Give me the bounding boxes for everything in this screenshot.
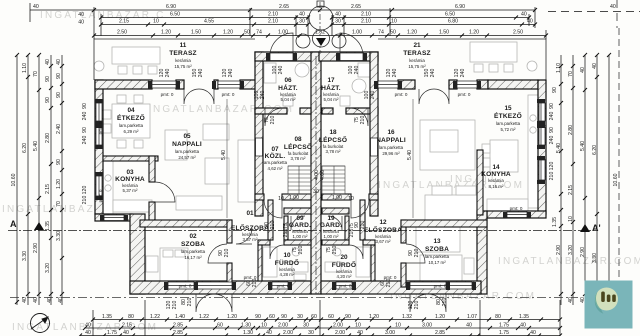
room 08 LEPCSO <box>284 136 312 161</box>
konyha 14 counter <box>528 95 538 208</box>
wall stairs bottom (unit 1) a <box>255 194 264 200</box>
section marker A' right <box>580 224 590 232</box>
wall konyha/nappali (unit 1) <box>103 156 158 161</box>
svg-text:210: 210 <box>549 172 555 181</box>
svg-text:30: 30 <box>297 314 303 320</box>
window bottom furdo 20 <box>336 282 352 289</box>
svg-text:50: 50 <box>390 30 396 36</box>
stair treads 18 <box>322 166 345 190</box>
svg-text:20: 20 <box>340 254 348 261</box>
svg-text:NAPPALI: NAPPALI <box>172 141 202 148</box>
svg-text:1.22: 1.22 <box>199 314 209 320</box>
svg-text:GARD.: GARD. <box>320 222 342 229</box>
window right wall a <box>539 103 545 121</box>
stair treads 08 <box>288 166 311 190</box>
svg-text:08: 08 <box>294 136 302 143</box>
svg-text:40: 40 <box>85 323 91 329</box>
wall eloszoba vertical (unit 1) lower <box>227 263 232 287</box>
svg-text:10.60: 10.60 <box>613 173 619 186</box>
svg-text:4,62 m²: 4,62 m² <box>268 166 283 171</box>
wall stairs bottom (unit 1) b <box>282 194 311 200</box>
wall top outer (unit 2) segment a <box>398 80 415 89</box>
svg-text:1.10: 1.10 <box>556 63 562 73</box>
svg-text:2.15: 2.15 <box>122 323 132 329</box>
svg-text:90: 90 <box>45 97 51 103</box>
svg-text:10: 10 <box>348 196 354 202</box>
svg-text:90: 90 <box>281 314 287 320</box>
svg-text:2.80: 2.80 <box>568 125 574 135</box>
svg-text:40: 40 <box>266 330 272 336</box>
window bottom szoba 02 <box>168 282 194 289</box>
svg-text:6.20: 6.20 <box>22 143 28 153</box>
nappali 05 sofa group <box>203 124 229 140</box>
room 16 NAPPALI <box>376 129 406 156</box>
svg-text:1.07: 1.07 <box>467 314 477 320</box>
room 13 SZOBA <box>425 238 450 265</box>
svg-text:40: 40 <box>78 20 84 26</box>
dim ticks row1 <box>92 8 548 38</box>
svg-text:LÉPCSŐ: LÉPCSŐ <box>319 135 347 144</box>
door furdo 20 <box>349 245 363 259</box>
window jambs black blocks <box>95 53 545 290</box>
svg-text:TERASZ: TERASZ <box>169 50 197 57</box>
svg-text:2.65: 2.65 <box>279 4 289 10</box>
wall konyha bottom (unit 2) <box>487 211 546 218</box>
svg-text:240: 240 <box>430 69 436 78</box>
wall eloszoba vertical (unit 1) upper <box>227 220 232 243</box>
svg-text:1.75: 1.75 <box>107 330 117 336</box>
extension verticals top-left <box>93 7 95 39</box>
svg-text:5,04 m²: 5,04 m² <box>324 97 339 102</box>
wall konyha/szoba vertical (unit 1) lower <box>149 202 155 221</box>
svg-text:1.35: 1.35 <box>552 217 558 227</box>
room 09 GARD <box>289 215 311 239</box>
svg-text:06: 06 <box>284 77 292 84</box>
bottom dim texts <box>85 314 536 336</box>
svg-text:15,75 m²: 15,75 m² <box>174 64 192 69</box>
svg-text:240: 240 <box>354 66 360 75</box>
svg-text:40: 40 <box>530 330 536 336</box>
svg-text:1.35: 1.35 <box>102 314 112 320</box>
svg-text:GARD.: GARD. <box>289 222 311 229</box>
window left wall b <box>96 127 102 145</box>
rotated window spec labels (terrace) <box>159 66 466 310</box>
svg-text:pmt: 0: pmt: 0 <box>434 284 447 289</box>
svg-text:240: 240 <box>549 112 555 121</box>
door gard 19 <box>328 216 342 230</box>
hazt 17 washer <box>352 79 366 93</box>
svg-text:07: 07 <box>271 146 279 153</box>
svg-text:TERASZ: TERASZ <box>403 50 431 57</box>
svg-text:40: 40 <box>58 297 64 303</box>
konyha 03 counter <box>103 161 113 214</box>
window top wall unit1 left 120 <box>152 81 176 88</box>
room 01 ELOSZOBA <box>231 210 269 242</box>
svg-text:kerámia: kerámia <box>409 58 425 63</box>
wall gard right vertical (unit 2) <box>345 216 349 240</box>
svg-text:90: 90 <box>552 87 558 93</box>
room 07 KOZL <box>263 146 288 171</box>
wall szoba/eloszoba (unit 2) upper <box>401 220 406 243</box>
svg-text:75: 75 <box>283 223 289 229</box>
wall eloszoba left vertical (unit 2) <box>360 200 365 240</box>
room 04 ETKEZO <box>117 107 145 134</box>
svg-text:2.40: 2.40 <box>56 124 62 134</box>
wall core top (unit 2) <box>319 52 378 61</box>
svg-text:lam.parketta: lam.parketta <box>263 160 288 165</box>
svg-text:40: 40 <box>33 4 39 10</box>
door eloszoba 01 from nappali <box>236 228 252 244</box>
svg-text:12: 12 <box>379 219 387 226</box>
svg-text:2.15: 2.15 <box>568 185 574 195</box>
svg-text:10: 10 <box>153 19 159 25</box>
svg-text:pmt: 0: pmt: 0 <box>222 92 235 97</box>
svg-text:240: 240 <box>198 69 204 78</box>
svg-text:KONYHA: KONYHA <box>481 171 511 178</box>
svg-text:2.10: 2.10 <box>268 19 278 25</box>
wall top outer (unit 1) segment b <box>176 80 184 89</box>
svg-text:2.90: 2.90 <box>580 247 586 257</box>
svg-text:KONYHA: KONYHA <box>115 176 145 183</box>
svg-text:90: 90 <box>255 314 261 320</box>
wall konyha vertical (unit 2) <box>477 150 483 215</box>
svg-text:3,67 m²: 3,67 m² <box>376 239 391 244</box>
window right wall konyha <box>539 160 545 180</box>
opening nappali-kozl unit1 <box>256 138 378 156</box>
svg-text:21: 21 <box>413 42 421 49</box>
svg-text:13: 13 <box>433 238 441 245</box>
svg-text:90: 90 <box>345 314 351 320</box>
svg-text:pmt: 0: pmt: 0 <box>161 92 174 97</box>
svg-text:30: 30 <box>308 330 314 336</box>
svg-text:1.20: 1.20 <box>223 30 233 36</box>
dim row 3 <box>101 24 308 26</box>
svg-text:60: 60 <box>311 314 317 320</box>
svg-text:240: 240 <box>165 69 171 78</box>
door kozl/hazt unit2 <box>350 108 368 126</box>
wall eloszoba right vertical (unit 1) <box>268 200 273 240</box>
etkezo 04 table and chairs <box>112 104 150 138</box>
wall stairs bottom (unit 2) b <box>322 194 351 200</box>
tree circle 2 <box>313 30 330 47</box>
svg-text:5.40: 5.40 <box>556 143 562 153</box>
svg-text:70: 70 <box>568 71 574 77</box>
wall core top (unit 1) <box>255 52 321 61</box>
svg-text:74: 74 <box>256 30 262 36</box>
svg-text:kerámia: kerámia <box>175 58 191 63</box>
svg-text:1,00 m²: 1,00 m² <box>324 234 339 239</box>
svg-text:70: 70 <box>33 71 39 77</box>
wall gard top (unit 1) <box>284 208 311 214</box>
svg-text:1.20: 1.20 <box>56 179 62 189</box>
svg-text:2.85: 2.85 <box>435 330 445 336</box>
svg-text:pmt: 0: pmt: 0 <box>339 284 352 289</box>
svg-text:24,57 m²: 24,57 m² <box>178 155 196 160</box>
svg-text:18: 18 <box>329 129 337 136</box>
window top wall unit2 left 120 <box>378 81 398 88</box>
svg-text:40: 40 <box>580 67 586 73</box>
right rotated dim labels <box>552 63 619 303</box>
svg-text:8,16 m²: 8,16 m² <box>489 184 504 189</box>
svg-text:10: 10 <box>395 323 401 329</box>
svg-text:210: 210 <box>414 249 420 258</box>
dim texts top <box>117 4 523 36</box>
top-left corner mini dims <box>30 3 94 22</box>
svg-text:60: 60 <box>217 323 223 329</box>
svg-text:pmt: 0: pmt: 0 <box>98 121 103 134</box>
svg-text:210: 210 <box>187 298 193 307</box>
svg-text:240: 240 <box>260 91 266 100</box>
svg-text:2.15: 2.15 <box>119 19 129 25</box>
svg-text:lam.parketta: lam.parketta <box>181 249 206 254</box>
left rotated dim labels <box>11 59 555 303</box>
svg-text:80: 80 <box>128 314 134 320</box>
svg-text:3.20: 3.20 <box>568 245 574 255</box>
svg-text:1.20: 1.20 <box>227 314 237 320</box>
svg-text:40: 40 <box>123 330 129 336</box>
svg-text:1.20: 1.20 <box>407 30 417 36</box>
svg-text:1.50: 1.50 <box>439 30 449 36</box>
svg-text:5,37 m²: 5,37 m² <box>123 188 138 193</box>
svg-text:40: 40 <box>520 323 526 329</box>
wall furdo top (unit 2) b <box>322 240 349 245</box>
tree circle 1 <box>309 6 333 30</box>
furdo 20 fixtures <box>356 247 370 277</box>
svg-text:1.00: 1.00 <box>278 30 288 36</box>
room 05 NAPPALI <box>172 133 202 160</box>
wall stairs bottom (unit 2) a <box>369 194 378 200</box>
wall core right vertical (unit 2) <box>370 52 378 216</box>
svg-text:6.50: 6.50 <box>445 12 455 18</box>
svg-text:4,20 m²: 4,20 m² <box>337 274 352 279</box>
svg-text:210: 210 <box>360 221 366 230</box>
svg-text:1.35: 1.35 <box>45 221 51 231</box>
dim ticks row4 <box>92 34 96 38</box>
svg-text:FÜRDŐ: FÜRDŐ <box>332 260 356 269</box>
svg-text:5.40: 5.40 <box>33 141 39 151</box>
hazt 06 washer <box>295 63 309 77</box>
svg-text:2.00: 2.00 <box>283 330 293 336</box>
svg-text:90: 90 <box>82 103 88 109</box>
svg-text:4,28 m²: 4,28 m² <box>280 272 295 277</box>
terrace 21 table <box>470 42 517 62</box>
svg-text:KÖZL.: KÖZL. <box>265 151 286 160</box>
dim row 4 (terrace) <box>94 35 546 37</box>
dash line lower right <box>10 297 578 299</box>
svg-text:2.15: 2.15 <box>45 184 51 194</box>
svg-text:40: 40 <box>56 59 62 65</box>
wall hazt bottom (unit 1) <box>255 108 287 114</box>
door bottom french unit2 <box>410 294 428 312</box>
svg-text:30: 30 <box>299 19 305 25</box>
svg-text:15,75 m²: 15,75 m² <box>408 64 426 69</box>
wall konyha bottom (unit 1) <box>95 214 132 221</box>
svg-text:SZOBA: SZOBA <box>181 241 205 248</box>
svg-text:5.40: 5.40 <box>221 150 227 160</box>
svg-text:74: 74 <box>378 30 384 36</box>
svg-text:1.35: 1.35 <box>519 314 529 320</box>
svg-text:4.00: 4.00 <box>320 170 326 180</box>
door hazt 06 from terrace <box>270 33 293 56</box>
svg-text:02: 02 <box>189 233 197 240</box>
svg-text:3.30: 3.30 <box>592 253 598 263</box>
door main entrance unit1 (top wall double) <box>184 89 199 104</box>
wall top outer (unit 1) segment c <box>214 80 218 89</box>
door opening core top unit1 <box>270 53 293 61</box>
room 19 GARD <box>320 215 342 239</box>
svg-text:2.10: 2.10 <box>361 12 371 18</box>
svg-text:240: 240 <box>82 136 88 145</box>
opening bottom doors unit1 <box>196 282 232 289</box>
svg-text:210: 210 <box>386 279 392 288</box>
svg-text:5,04 m²: 5,04 m² <box>281 97 296 102</box>
svg-text:10: 10 <box>278 196 284 202</box>
dim row 2 <box>101 17 308 19</box>
svg-text:1,00 m²: 1,00 m² <box>293 234 308 239</box>
terrace 11 edge <box>94 39 255 80</box>
wall top outer (unit 2) segment b <box>449 80 457 89</box>
svg-text:10: 10 <box>261 323 267 329</box>
svg-text:1.75: 1.75 <box>499 330 509 336</box>
window bottom szoba 13 <box>446 282 472 289</box>
section line left <box>8 230 597 232</box>
window bottom furdo 10 <box>272 282 288 289</box>
svg-text:210: 210 <box>332 246 338 255</box>
svg-text:pmt: 0: pmt: 0 <box>510 206 523 211</box>
svg-text:1.20: 1.20 <box>369 314 379 320</box>
svg-text:50: 50 <box>244 30 250 36</box>
window konyha 03 bottom wall <box>104 215 124 221</box>
svg-text:3,78 m²: 3,78 m² <box>291 156 306 161</box>
svg-text:70: 70 <box>56 201 62 207</box>
svg-text:120: 120 <box>549 162 555 171</box>
svg-text:pmt: 0: pmt: 0 <box>395 92 408 97</box>
svg-text:05: 05 <box>183 133 191 140</box>
room 15 ETKEZO <box>494 105 522 132</box>
svg-text:2.00: 2.00 <box>333 323 343 329</box>
svg-text:40: 40 <box>357 330 363 336</box>
svg-text:210: 210 <box>82 196 88 205</box>
room 11 TERASZ <box>169 42 197 69</box>
svg-text:2.80: 2.80 <box>45 133 51 143</box>
wall top outer (unit 1) segment d <box>240 80 257 89</box>
svg-text:16: 16 <box>387 129 395 136</box>
svg-text:15: 15 <box>504 105 512 112</box>
svg-text:6.90: 6.90 <box>166 4 176 10</box>
svg-text:10,17 m²: 10,17 m² <box>428 260 446 265</box>
door kozl/hazt unit1 <box>265 108 283 126</box>
svg-text:ÉTKEZŐ: ÉTKEZŐ <box>117 113 145 122</box>
svg-text:120: 120 <box>82 186 88 195</box>
interior dim nappali unit1 <box>227 99 413 218</box>
wall furdo top (unit 1) a <box>258 240 270 245</box>
door bottom french unit1 <box>196 294 214 312</box>
svg-text:04: 04 <box>127 107 135 114</box>
svg-text:ELŐSZOBA: ELŐSZOBA <box>364 225 402 234</box>
window top wall unit2 right 120 <box>457 81 477 88</box>
room 17 HAZT <box>321 77 341 102</box>
svg-text:40: 40 <box>85 330 91 336</box>
wall gard top (unit 2) <box>322 208 349 214</box>
svg-text:1.10: 1.10 <box>22 63 28 73</box>
svg-text:210: 210 <box>298 246 304 255</box>
svg-text:A': A' <box>592 223 601 233</box>
svg-text:2.90: 2.90 <box>556 245 562 255</box>
wall szoba/nappali (unit 2) <box>401 220 487 227</box>
svg-text:90: 90 <box>56 73 62 79</box>
svg-text:2.50: 2.50 <box>117 30 127 36</box>
furdo 10 fixtures <box>263 247 277 277</box>
svg-text:A: A <box>10 219 17 229</box>
window left wall konyha <box>96 176 102 196</box>
svg-text:1.20: 1.20 <box>469 30 479 36</box>
room 10 FURDO <box>275 252 299 277</box>
svg-text:40: 40 <box>592 63 598 69</box>
nappali 16 furniture <box>420 120 475 170</box>
wall szoba/eloszoba (unit 2) lower <box>401 263 406 287</box>
svg-text:SZOBA: SZOBA <box>425 246 449 253</box>
room 02 SZOBA <box>181 233 206 260</box>
svg-text:40: 40 <box>527 19 533 25</box>
center axis dashed <box>319 2 321 52</box>
svg-text:10: 10 <box>283 252 291 259</box>
wall bottom outer (unit 1) <box>130 281 311 294</box>
svg-text:40: 40 <box>568 297 574 303</box>
svg-text:1.00: 1.00 <box>352 30 362 36</box>
svg-text:2.90: 2.90 <box>33 243 39 253</box>
svg-text:1.20: 1.20 <box>161 30 171 36</box>
svg-text:3.20: 3.20 <box>45 263 51 273</box>
svg-text:40: 40 <box>466 323 472 329</box>
svg-text:pmt: 0: pmt: 0 <box>277 284 290 289</box>
room 18 LEPCSO <box>319 129 347 154</box>
door main entrance unit2 (top wall double) <box>419 89 434 104</box>
svg-text:40: 40 <box>78 12 84 18</box>
svg-text:40: 40 <box>299 12 305 18</box>
svg-text:40: 40 <box>33 297 39 303</box>
svg-text:240: 240 <box>392 69 398 78</box>
svg-text:210: 210 <box>252 279 258 288</box>
svg-text:30: 30 <box>335 19 341 25</box>
svg-text:1.50: 1.50 <box>191 30 201 36</box>
svg-text:FÜRDŐ: FÜRDŐ <box>275 258 299 267</box>
svg-text:40: 40 <box>45 59 51 65</box>
wall szoba/nappali (unit 1) <box>140 220 232 227</box>
svg-text:210: 210 <box>414 301 420 310</box>
wall furdo right vertical (unit 2) <box>371 245 375 281</box>
svg-text:40: 40 <box>47 297 53 303</box>
svg-text:210: 210 <box>442 298 448 307</box>
svg-text:3.30: 3.30 <box>22 251 28 261</box>
svg-text:2.85: 2.85 <box>173 323 183 329</box>
svg-text:1.22: 1.22 <box>150 314 160 320</box>
svg-text:3,78 m²: 3,78 m² <box>326 149 341 154</box>
svg-text:01: 01 <box>246 210 254 217</box>
svg-text:210: 210 <box>283 229 289 238</box>
svg-text:2.00: 2.00 <box>278 323 288 329</box>
interior partition walls <box>103 150 487 287</box>
svg-text:1.40: 1.40 <box>175 314 185 320</box>
wall lower-left outer vertical <box>130 214 145 294</box>
svg-text:lam.parketta: lam.parketta <box>119 123 144 128</box>
terrace 21 edge <box>378 39 546 80</box>
szoba 02 bed <box>160 248 188 281</box>
door eloszoba 01 <box>264 200 282 218</box>
svg-text:6.20: 6.20 <box>592 145 598 155</box>
svg-text:1.00: 1.00 <box>289 195 299 201</box>
door eloszoba 12 <box>351 200 369 218</box>
svg-text:5,72 m²: 5,72 m² <box>501 127 516 132</box>
